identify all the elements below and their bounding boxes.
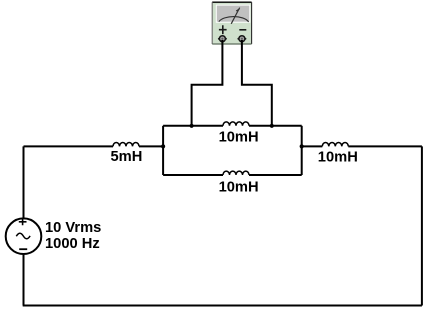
wire: L1 to parallel network <box>139 145 163 147</box>
inductor L1 5mH <box>113 142 139 146</box>
svg-text:1000 Hz: 1000 Hz <box>45 236 100 252</box>
wire: XMM1 - lead down to node B <box>242 40 272 126</box>
wire: XMM1 + lead down to node A <box>192 40 223 126</box>
wire: parallel network to L4 <box>302 145 323 147</box>
wire: bottom rail left segment <box>163 174 223 176</box>
junction: node B (meter - tap on top rail) <box>270 124 274 128</box>
junction: right rail / main wire <box>300 144 304 148</box>
inductor L3 10mH (bottom of parallel pair) <box>223 171 249 175</box>
XMM1 + terminal <box>218 36 227 42</box>
wire: parallel network left rail <box>162 126 164 175</box>
wire: source to L1 <box>24 145 114 147</box>
XMM1 needle barb <box>236 9 239 11</box>
XMM1 border <box>212 1 251 3</box>
wire: top rail right segment <box>249 125 302 127</box>
inductor L4 10mH (right) <box>322 142 348 146</box>
svg-text:10mH: 10mH <box>219 129 259 145</box>
V1 minus marking <box>19 248 27 250</box>
junction: left rail / main wire <box>161 144 165 148</box>
multimeter XMM1 <box>212 2 251 44</box>
svg-text:10mH: 10mH <box>219 179 259 195</box>
XMM1 minus marking <box>239 29 246 31</box>
wire: top rail left segment <box>163 125 223 127</box>
wire: bottom rail right segment <box>249 174 302 176</box>
junction: node A (meter + tap on top rail) <box>190 124 194 128</box>
XMM1 needle <box>231 8 240 24</box>
V1 sine marking <box>16 233 30 239</box>
wire: main loop (left vertical, bottom, right vertical) <box>23 146 422 305</box>
svg-text:10mH: 10mH <box>318 149 358 165</box>
AC source V1 <box>6 218 42 254</box>
svg-text:10 Vrms: 10 Vrms <box>45 220 101 236</box>
wire: parallel network right rail <box>301 126 303 175</box>
XMM1 - terminal <box>237 36 246 42</box>
XMM1 plus marking <box>219 25 227 34</box>
inductor L2 10mH (top of parallel pair) <box>223 122 249 126</box>
svg-text:5mH: 5mH <box>111 149 143 165</box>
V1 plus marking <box>19 218 27 225</box>
XMM1 scale arc <box>219 17 249 22</box>
wire: L4 to right edge <box>348 145 422 147</box>
